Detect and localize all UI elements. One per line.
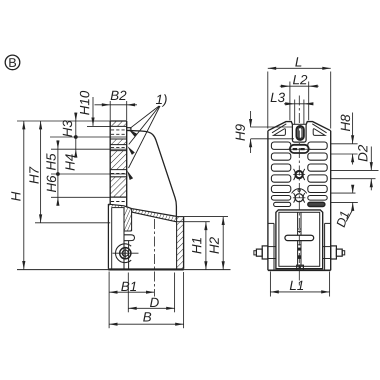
dimension L3 xyxy=(294,100,296,125)
dimension H3 / H4 chain xyxy=(75,113,77,158)
dimension L xyxy=(268,67,331,69)
vertical centerline xyxy=(298,96,300,286)
channel bottom square xyxy=(297,265,304,270)
dimension H7 xyxy=(40,121,42,223)
top slot inner xyxy=(298,128,302,139)
claw arm left edge xyxy=(123,208,125,269)
lower clamp block xyxy=(276,210,323,269)
dimension H5 / H6 chain xyxy=(57,140,59,205)
rail plate hatch bands (section) xyxy=(110,121,127,197)
base left outer edge xyxy=(107,204,109,269)
rail plate right edge xyxy=(126,121,128,208)
base right wall hatch xyxy=(177,217,184,269)
top slot boss outer xyxy=(292,125,306,143)
screw channel above slot xyxy=(297,212,299,235)
upper pivot hole (bold) with slot-end arcs xyxy=(294,169,296,180)
dimension B xyxy=(109,323,184,325)
extension lines left view xyxy=(17,120,110,122)
clamping bolt head xyxy=(120,248,131,259)
sloped flange edges xyxy=(108,204,176,216)
T-nut obround xyxy=(290,145,309,153)
serration rib slots xyxy=(271,142,327,207)
dimension D2 xyxy=(331,169,379,171)
dimension H2 xyxy=(222,217,224,270)
base bottom edge xyxy=(108,268,183,270)
dimension D xyxy=(128,307,174,309)
callout 1) with leader arrows xyxy=(156,94,167,106)
screw channel below slot xyxy=(297,241,299,266)
dimension L1 xyxy=(269,272,271,297)
washer arc xyxy=(116,244,132,263)
dimension D1 xyxy=(331,192,356,194)
clamp claw profile xyxy=(127,128,131,130)
rail plate top edge xyxy=(110,120,127,122)
dimension H xyxy=(23,121,25,269)
base cavity centerline xyxy=(153,219,155,297)
base right wall outline xyxy=(176,217,178,269)
rail plate left edge xyxy=(109,121,111,204)
top slot bold ring xyxy=(297,126,304,140)
claw arm bottom edge xyxy=(124,230,132,232)
body outline right view xyxy=(268,122,331,271)
dimension B1 xyxy=(108,272,110,329)
base sloped flange hatch xyxy=(108,204,176,231)
claw arm finger nose xyxy=(124,235,135,241)
right view extension lines for L xyxy=(267,72,269,129)
T-slot channel top edge xyxy=(112,207,124,209)
dimension H10 xyxy=(92,97,94,126)
lower screw hole with boss bell xyxy=(292,189,307,194)
dimension L2 xyxy=(289,82,291,121)
dimension H9 xyxy=(250,111,252,127)
screw shank lines xyxy=(128,241,130,269)
dimension B2 xyxy=(109,101,111,121)
top triangular slots xyxy=(274,129,286,136)
rail groove lines xyxy=(110,126,127,197)
dimension H8 xyxy=(331,143,358,145)
bottom edge right view xyxy=(268,269,331,271)
body side steps xyxy=(268,222,274,224)
claw arm right edge xyxy=(131,209,133,231)
inner chamfer lines xyxy=(272,124,286,133)
dimension H1 xyxy=(205,222,207,270)
pivot tabs with bolts xyxy=(262,246,268,259)
rail hidden thread dashes xyxy=(111,130,126,202)
tab pass lines across wall strips xyxy=(268,246,276,248)
block slot xyxy=(285,235,314,240)
view label circle B xyxy=(5,55,20,70)
base left inner edge xyxy=(111,208,113,269)
